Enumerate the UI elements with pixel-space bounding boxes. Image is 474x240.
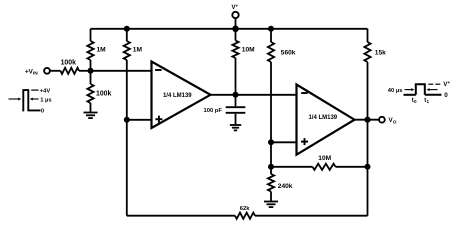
ground (capacitor)	[230, 125, 241, 130]
label 100 pF	[204, 108, 223, 114]
label +VIN	[25, 68, 38, 76]
label 10M (timing)	[242, 47, 255, 54]
label 15k	[375, 50, 386, 57]
junction node rail/560k	[268, 26, 274, 32]
svg-text:t0: t0	[412, 98, 417, 104]
ground (240k)	[264, 202, 278, 208]
junction node VIN divider	[88, 68, 94, 74]
svg-text:0: 0	[444, 92, 448, 99]
junction node rail/V+	[232, 26, 239, 33]
wire 560k column down	[270, 62, 272, 167]
capacitor C1 100 pF	[226, 95, 246, 125]
svg-text:100k: 100k	[61, 59, 76, 66]
junction node feedback right	[365, 164, 371, 170]
resistor 10M timing	[232, 29, 238, 95]
label 100k (shunt)	[96, 91, 111, 98]
label 560k	[281, 50, 296, 57]
label 1 µs (input waveform)	[40, 97, 51, 103]
wire VIN terminal to 100k	[50, 70, 61, 72]
junction node U2 output	[364, 117, 370, 123]
label VO	[389, 117, 397, 125]
wire V+ rail	[91, 28, 368, 30]
junction node feedback left	[268, 164, 274, 170]
resistor 62k	[235, 213, 255, 219]
junction node rail/R2	[124, 26, 130, 32]
label 1/4 LM139 (U1)	[163, 93, 192, 99]
svg-text:1M: 1M	[97, 47, 107, 54]
wire U2 non-inverting input	[271, 141, 297, 143]
resistor R2 1M	[124, 29, 130, 60]
op-amp U1 1/4 LM139	[152, 62, 211, 129]
resistor 560k	[268, 29, 274, 62]
label 0 (output waveform)	[444, 92, 448, 99]
label 1M (R2)	[133, 47, 143, 54]
svg-text:62k: 62k	[240, 206, 250, 212]
label V+ (output waveform)	[443, 80, 450, 88]
svg-text:100 pF: 100 pF	[204, 108, 223, 114]
label t0	[412, 98, 417, 104]
wire U1 non-inverting input	[127, 119, 152, 121]
wire R2 column down to bottom	[126, 60, 128, 216]
label 1M (R1)	[97, 47, 107, 54]
svg-text:560k: 560k	[281, 50, 296, 57]
svg-text:10M: 10M	[242, 47, 255, 54]
svg-text:0: 0	[41, 108, 44, 114]
wire U2 output to VO	[355, 119, 380, 121]
svg-text:10M: 10M	[318, 155, 331, 162]
svg-text:15k: 15k	[375, 50, 386, 57]
resistor 15k	[364, 29, 370, 62]
wire U1 output to U2 inverting input	[211, 94, 297, 96]
label 1/4 LM139 (U2)	[308, 115, 337, 121]
input pulse waveform icon	[9, 90, 41, 110]
wire 15k column down to bottom	[367, 62, 369, 216]
resistor 100k series input	[61, 68, 91, 74]
junction node U1 output	[233, 92, 239, 98]
label 10M (feedback)	[318, 155, 331, 162]
svg-text:1 µs: 1 µs	[40, 97, 51, 103]
label 240k	[278, 183, 293, 190]
ground (input divider)	[84, 113, 98, 119]
input terminal +VIN	[44, 68, 50, 74]
label t1	[424, 98, 429, 104]
svg-text:1/4 LM139: 1/4 LM139	[308, 115, 337, 121]
output pulse waveform icon	[404, 84, 442, 95]
svg-text:240k: 240k	[278, 183, 293, 190]
resistor 10M feedback	[271, 164, 368, 170]
resistor 100k shunt	[87, 71, 93, 113]
label 62k	[240, 206, 250, 212]
label 0 (input waveform)	[41, 108, 44, 114]
label V+	[232, 3, 239, 11]
wire bottom return left	[127, 215, 235, 217]
op-amp U2 1/4 LM139	[297, 85, 355, 155]
svg-text:t1: t1	[424, 98, 429, 104]
wire bottom return right	[255, 215, 368, 217]
svg-text:+4V: +4V	[40, 88, 51, 94]
label 100k (series)	[61, 59, 76, 66]
wire VIN node to U1 inverting input	[91, 70, 152, 72]
label 40 µs (output waveform)	[388, 88, 403, 94]
svg-text:1M: 1M	[133, 47, 143, 54]
label +4V (input waveform)	[40, 88, 51, 94]
svg-text:40 µs: 40 µs	[388, 88, 403, 94]
junction node U1 + input	[124, 117, 130, 123]
svg-text:100k: 100k	[96, 91, 111, 98]
junction node U2 + input	[268, 139, 274, 145]
resistor R1 1M	[87, 29, 93, 71]
terminal V+	[232, 12, 238, 29]
resistor 240k	[268, 167, 274, 201]
svg-text:1/4 LM139: 1/4 LM139	[163, 93, 192, 99]
output terminal VO	[379, 117, 385, 123]
